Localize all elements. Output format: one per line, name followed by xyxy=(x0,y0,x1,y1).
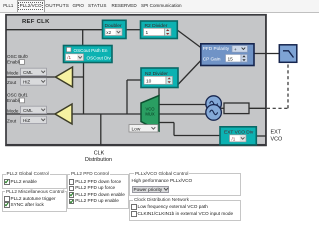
svg-text:1: 1 xyxy=(146,30,149,36)
svg-text:CML: CML xyxy=(23,70,33,75)
VCO mux xyxy=(141,96,159,132)
wire external dashed tuning path vertical xyxy=(287,63,289,109)
svg-text:OSCout Div: OSCout Div xyxy=(87,56,112,61)
svg-text:/1: /1 xyxy=(67,55,71,60)
svg-text:Distribution: Distribution xyxy=(85,157,112,163)
svg-text:EXT VCO Div: EXT VCO Div xyxy=(224,129,254,135)
wire VCO distribution bus xyxy=(72,113,207,115)
OSC Buf0 controls xyxy=(7,54,47,85)
R2 divider block xyxy=(141,21,178,39)
active tab PLL2/VCO xyxy=(17,0,45,12)
wire VCO to tuning element xyxy=(221,107,224,109)
wire buffer OSCout0 input xyxy=(72,76,84,78)
PFD and charge pump block xyxy=(201,44,254,66)
svg-text:CP Gain: CP Gain xyxy=(203,57,221,62)
svg-text:Zout: Zout xyxy=(7,119,17,124)
svg-text:REF CLK: REF CLK xyxy=(22,19,50,25)
svg-text:15: 15 xyxy=(228,56,234,62)
svg-text:Zout: Zout xyxy=(7,80,17,85)
wire Doubler to R2 Divider xyxy=(126,29,141,31)
buffer OSC Buf0 xyxy=(56,67,73,87)
wire N2 Divider to VCO mux top xyxy=(158,88,160,96)
svg-text:HiZ: HiZ xyxy=(23,80,30,85)
svg-text:10: 10 xyxy=(146,79,152,85)
FS1 PLL2 Global Control xyxy=(2,174,67,189)
svg-text:EXT: EXT xyxy=(271,130,282,136)
wire OSCout path block to buffer wires xyxy=(83,62,85,114)
svg-text:PFD Polarity: PFD Polarity xyxy=(203,46,230,51)
VCO tuning element xyxy=(224,103,249,114)
svg-text:Mode: Mode xyxy=(7,109,19,114)
svg-text:x2: x2 xyxy=(106,30,111,35)
svg-text:MUX: MUX xyxy=(145,112,155,117)
wire EXT VCO Div to border pin xyxy=(256,135,266,137)
svg-text:CML: CML xyxy=(23,108,33,113)
tab bar xyxy=(0,0,319,13)
wire VCO mux input from VCO0 xyxy=(159,104,206,106)
wire external dashed tuning path horizontal xyxy=(267,107,288,109)
FS2 PLL2 Miscellaneous Control xyxy=(2,191,67,212)
wire to EXT VCO Div xyxy=(174,135,220,137)
svg-text:Doubler: Doubler xyxy=(105,23,122,29)
wire junction to OSCout path block xyxy=(82,30,84,46)
loop filter xyxy=(279,45,297,63)
svg-text:+: + xyxy=(234,47,237,52)
svg-text:OSC Buf1: OSC Buf1 xyxy=(7,93,28,98)
wire into N2 Divider input xyxy=(127,79,141,81)
node CLK Distribution and EXT VCO labels xyxy=(85,130,282,164)
wire N2 Divider to PFD feedback input xyxy=(178,61,201,85)
OSC Buf1 controls xyxy=(7,93,47,124)
REF CLK block container xyxy=(6,15,266,145)
wire buffer OSCout0 to pin xyxy=(6,76,56,78)
FS3 PLL2 PFD Control xyxy=(67,174,129,209)
wire PFD charge pump to loop filter xyxy=(254,53,279,55)
EXT VCO divider block xyxy=(220,127,256,145)
svg-text:/1: /1 xyxy=(232,137,236,142)
doubler block xyxy=(103,20,127,38)
wire feedback riser to N2 xyxy=(126,80,128,114)
wire VCO mux external input stub xyxy=(159,122,174,124)
svg-text:Mode: Mode xyxy=(7,71,19,76)
svg-text:Low: Low xyxy=(132,126,141,132)
svg-text:OSC Buf0: OSC Buf0 xyxy=(7,54,28,59)
wire OSCin reference to Doubler xyxy=(6,29,103,31)
VCO mux mode combobox Low xyxy=(129,125,158,133)
oscillators VCO0 and VCO1 xyxy=(206,96,222,120)
svg-text:OSCout Path En: OSCout Path En xyxy=(74,48,108,53)
svg-text:CLK: CLK xyxy=(94,151,105,157)
svg-text:HiZ: HiZ xyxy=(23,118,30,123)
wire to CLK distribution xyxy=(100,114,102,145)
OSCout path enable block xyxy=(64,46,113,63)
N2 divider block xyxy=(141,68,178,88)
buffer OSC Buf1 xyxy=(55,104,72,124)
wire tuning element to border xyxy=(249,107,266,109)
wire buffer OSCout1 to pin xyxy=(6,113,56,115)
FS5 Clock Distribution Network xyxy=(129,200,241,221)
svg-text:VCO: VCO xyxy=(271,137,283,143)
FS4 PLLx/VCO Global Control xyxy=(129,173,241,196)
wire R2 Divider to PFD reference input xyxy=(177,30,201,48)
wire external VCO riser xyxy=(173,123,175,136)
svg-text:N2 Divider: N2 Divider xyxy=(145,71,168,77)
